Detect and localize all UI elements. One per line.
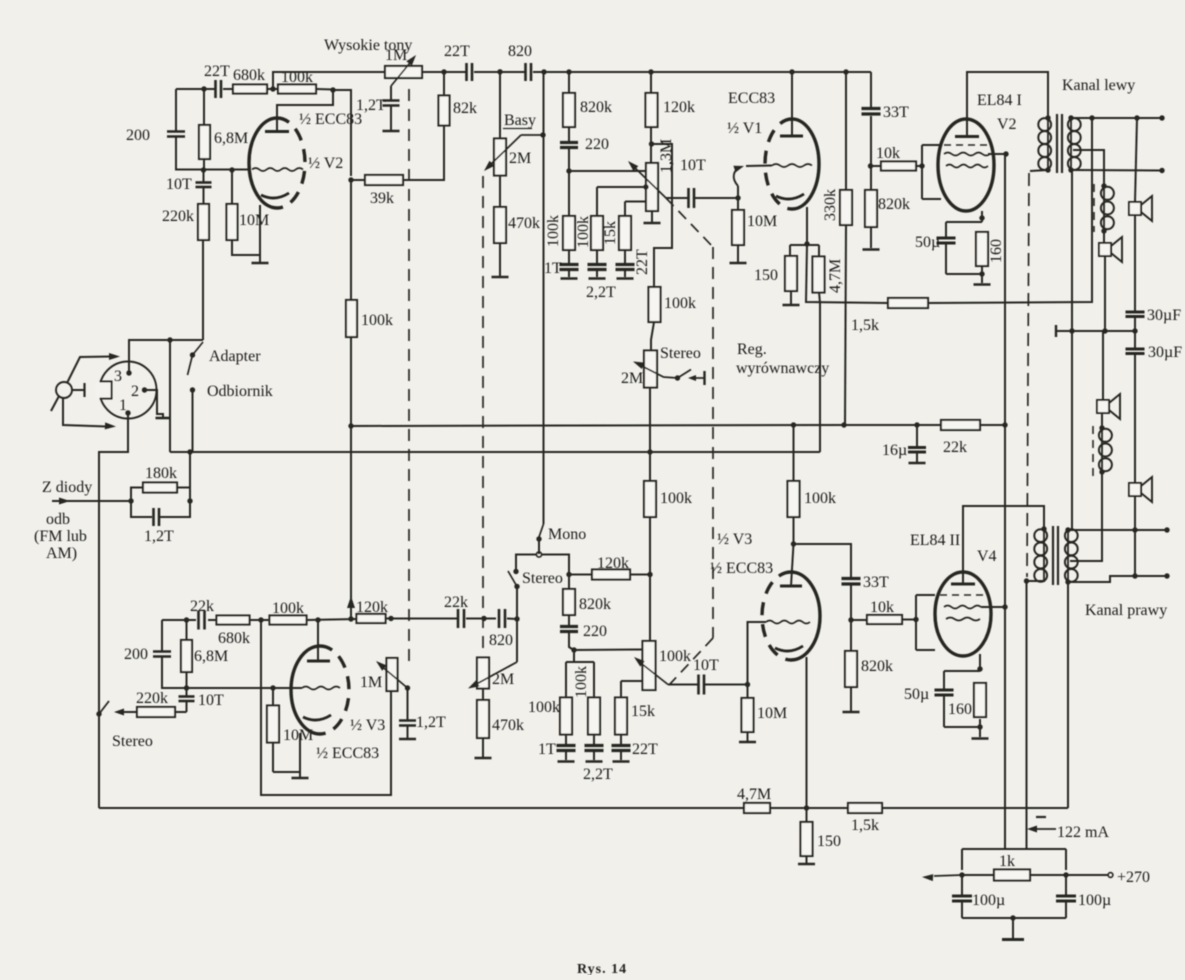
svg-text:Kanal lewy: Kanal lewy	[1062, 77, 1135, 94]
wire EL84II cathode	[979, 654, 981, 671]
node bus dots	[541, 69, 546, 74]
wire 1,2T tail	[390, 106, 392, 130]
node bottom bus junction	[804, 805, 809, 810]
wire anode junction to tube	[791, 544, 794, 586]
resistor 10M (top)	[231, 170, 233, 204]
svg-text:100k: 100k	[361, 312, 393, 329]
svg-text:4,7M: 4,7M	[737, 786, 771, 803]
svg-text:10T: 10T	[198, 692, 224, 709]
svg-text:½ ECC83: ½ ECC83	[316, 745, 379, 762]
svg-text:1,2T: 1,2T	[416, 714, 446, 731]
svg-text:820k: 820k	[579, 596, 611, 613]
node B junction	[270, 86, 275, 91]
tube V2 half ECC83 (top)	[249, 118, 277, 208]
svg-text:100k: 100k	[660, 490, 692, 507]
resistor 820k (bottom output)	[845, 651, 857, 687]
terminal EL84I cathode	[974, 283, 991, 286]
svg-text:ECC83: ECC83	[728, 90, 775, 107]
terminal 820k b	[843, 711, 860, 714]
terminal 470k b	[475, 757, 492, 760]
resistor 100k (btone #2)	[588, 698, 600, 735]
node V3 grid node	[745, 682, 750, 687]
capacitor 22T (bus)	[465, 63, 468, 81]
svg-text:wyrównawczy: wyrównawczy	[736, 360, 829, 377]
svg-text:2,2T: 2,2T	[586, 284, 616, 301]
node grid junction	[201, 167, 206, 172]
wire 220 to junction	[568, 148, 570, 216]
potentiometer 1M (Wysokie tony)	[385, 66, 422, 78]
capacitor 22T (tone)	[624, 250, 626, 264]
grid wavy EL84I a	[944, 153, 990, 156]
node 10k junction (bottom)	[848, 617, 853, 622]
wire riser to tone bus	[273, 72, 385, 89]
capacitor 30uF #1	[1126, 311, 1145, 314]
node anode junction	[330, 87, 335, 92]
svg-text:1,5k: 1,5k	[851, 317, 879, 334]
cathode arc V1	[776, 194, 804, 199]
wire 33T column	[870, 72, 872, 108]
wire socket pin3 riser	[129, 340, 203, 373]
ground (filter)	[1012, 918, 1014, 938]
anode bar V3 mid	[780, 585, 802, 588]
node 120k bottom junction	[649, 141, 654, 146]
node screen junction	[1003, 151, 1008, 156]
dashed B+ drop	[1027, 173, 1029, 577]
switch Adapter lever	[188, 355, 193, 375]
svg-text:2M: 2M	[509, 150, 531, 167]
resistor 10k (bottom)	[851, 619, 866, 621]
svg-text:4,7M: 4,7M	[827, 259, 844, 293]
terminal 150	[783, 304, 800, 307]
wire tone bus segment	[422, 71, 466, 73]
svg-text:2: 2	[131, 383, 139, 400]
wire pin1 drop	[99, 413, 128, 808]
capacitor 1,2T (below 1M)	[383, 99, 400, 102]
node EL84I cathode junction	[979, 215, 984, 220]
terminal 22T	[617, 277, 634, 280]
svg-text:odb: odb	[46, 511, 70, 528]
resistor 180k	[131, 488, 143, 502]
wire z-diody arrow	[52, 500, 131, 502]
terminal 10M	[730, 262, 747, 265]
svg-text:2M: 2M	[621, 370, 643, 387]
svg-text:+270: +270	[1117, 869, 1150, 886]
svg-text:Stereo: Stereo	[660, 345, 701, 362]
svg-text:Kanal prawy: Kanal prawy	[1085, 602, 1167, 619]
svg-text:V2: V2	[997, 116, 1017, 133]
resistor 82k	[443, 72, 445, 96]
wire 100k column to bottom row	[350, 426, 352, 619]
grid wavy EL84II a	[944, 606, 981, 609]
svg-text:1,5k: 1,5k	[851, 817, 879, 834]
capacitor 200 (bottom)	[153, 650, 171, 653]
wire T2 sec tap	[1070, 473, 1102, 561]
node cathode bottom junction b	[977, 724, 982, 729]
grid wavy EL84I b	[946, 165, 988, 168]
wire bus2 (y452)	[170, 451, 820, 453]
node V1 grid node	[735, 195, 740, 200]
resistor 4,7M (bottom)	[744, 803, 770, 813]
node 120k junction	[647, 572, 652, 577]
switch Stereo (mid)	[513, 569, 518, 574]
wire T2 sec bottom row	[1068, 576, 1167, 582]
svg-text:160: 160	[988, 239, 1005, 263]
wire B+ drop to box	[1026, 581, 1028, 849]
capacitor 1T (tone)	[568, 250, 570, 264]
node cathode junction	[804, 241, 809, 246]
switch Adapter contact	[190, 352, 195, 357]
node bus1 dots	[791, 422, 796, 427]
node 820k top junction	[566, 572, 571, 577]
potentiometer 2M (Basy bottom)	[477, 658, 489, 689]
socket pin 1	[125, 410, 130, 415]
svg-text:39k: 39k	[370, 190, 394, 207]
resistor 100k (top input)	[278, 85, 316, 94]
resistor 22k (bus1)	[941, 420, 980, 430]
wire V1 cathode	[806, 207, 808, 244]
svg-text:10k: 10k	[870, 599, 894, 616]
resistor 100k (below pot)	[649, 287, 661, 322]
svg-text:220: 220	[583, 623, 607, 640]
resistor 100k (feedback column)	[346, 300, 357, 337]
resistor 330k	[840, 190, 852, 225]
node bottom tone junction	[571, 647, 576, 652]
wire stereo junction to Basy wiper	[516, 619, 518, 662]
resistor 10M (V1 grid)	[737, 198, 739, 210]
capacitor 50u (EL84II)	[935, 689, 954, 692]
resistor 100k (mid below bus)	[644, 481, 656, 517]
svg-text:180k: 180k	[145, 465, 177, 482]
resistor 220k (top)	[203, 187, 205, 204]
svg-text:10T: 10T	[680, 157, 706, 174]
wire Basy feed	[499, 72, 501, 139]
wire left branch 200 b	[161, 620, 163, 651]
svg-text:1,3M: 1,3M	[658, 139, 675, 173]
resistor 470k (Basy top)	[499, 175, 501, 207]
node pin3 wire junction	[167, 337, 172, 342]
wire T1 sec bottom row	[1071, 169, 1162, 172]
terminal 22T b	[613, 760, 630, 763]
resistor 160 (EL84I)	[976, 232, 988, 266]
tube V3 half ECC83 (bottom)	[291, 646, 320, 734]
capacitor 10T (top)	[203, 170, 205, 182]
svg-text:100k: 100k	[545, 215, 562, 247]
svg-text:Basy: Basy	[504, 112, 536, 129]
svg-text:470k: 470k	[492, 717, 524, 734]
svg-text:Stereo: Stereo	[112, 733, 153, 750]
svg-text:100k: 100k	[659, 648, 691, 665]
svg-text:680k: 680k	[233, 67, 265, 84]
svg-text:10M: 10M	[239, 212, 269, 229]
pot 100k wiper	[637, 660, 668, 685]
speaker left-top line	[1135, 118, 1137, 202]
tube V3 half ECC83 (mid)	[791, 572, 820, 660]
box feedback loop	[261, 620, 391, 795]
svg-text:120k: 120k	[356, 599, 388, 616]
svg-text:Mono: Mono	[548, 526, 586, 543]
wire T2 sec bottom to bus	[1067, 582, 1069, 808]
resistor 10k (top)	[871, 165, 880, 167]
svg-text:Reg.: Reg.	[737, 341, 767, 358]
capacitor 33T	[862, 107, 881, 110]
socket DIN circle	[100, 362, 157, 419]
pot 2M-b wiper	[471, 662, 517, 687]
arrow supply left	[934, 875, 962, 876]
svg-text:Adapter: Adapter	[209, 348, 261, 365]
dashed gang line (Wysokie tony)	[408, 89, 410, 667]
wire junction to 100k pot	[574, 649, 642, 652]
wire 30uF link	[1134, 317, 1136, 349]
anode bar V2	[265, 130, 289, 133]
wire cathode V2 to ground	[259, 205, 261, 262]
svg-text:10k: 10k	[876, 145, 900, 162]
wire plug bottom arrow	[63, 397, 107, 427]
terminal bar 1,2T	[383, 130, 400, 133]
capacitor 16u	[916, 425, 918, 447]
potentiometer 2M (Stereo reg)	[644, 351, 657, 388]
wire cathode bracket EL84II	[944, 670, 980, 672]
capacitor 1T (bottom)	[565, 734, 567, 745]
wire bottom bus	[99, 807, 744, 809]
node 10M-b junction	[270, 685, 275, 690]
terminal pin2 chassis	[156, 417, 171, 420]
svg-text:160: 160	[948, 701, 972, 718]
potentiometer 100k (Reg bottom)	[643, 641, 656, 690]
wire screen to B+ (bottom)	[981, 606, 1005, 608]
svg-text:½ V3: ½ V3	[717, 531, 752, 548]
svg-text:22T: 22T	[634, 249, 651, 275]
capacitor 2,2T (bottom)	[593, 734, 595, 745]
wire y331 row	[1056, 330, 1135, 332]
svg-text:820: 820	[489, 632, 513, 649]
capacitor 22k (coupling b)	[457, 609, 460, 628]
resistor 39k	[365, 175, 403, 185]
node drop junction	[1069, 328, 1074, 333]
svg-text:EL84 I: EL84 I	[977, 92, 1022, 109]
capacitor 30uF #2	[1126, 348, 1145, 351]
svg-text:820: 820	[508, 43, 532, 60]
capacitor 220 (tone top)	[568, 127, 570, 142]
resistor 15k (tone)	[625, 201, 646, 203]
svg-text:22k: 22k	[444, 594, 468, 611]
wire 200b to grid row	[162, 657, 302, 688]
svg-text:Odbiornik: Odbiornik	[207, 383, 273, 400]
pot 2M stereo wiper	[637, 364, 678, 379]
dashed gang diag (to Reg bottom)	[666, 198, 713, 247]
anode bar EL84II	[951, 583, 975, 586]
wire anode to 39k column	[333, 90, 351, 176]
resistor 820k (bottom tone)	[568, 575, 570, 590]
anode bar V3 bottom	[307, 660, 330, 663]
wire screen to B+ line	[988, 153, 1006, 155]
cathode arc V3 bottom	[303, 715, 331, 720]
wire 4,7M down to bus2	[819, 292, 820, 303]
wire 1.5k to transformer line	[928, 118, 1092, 303]
node 39k junction	[348, 177, 353, 182]
svg-text:15k: 15k	[602, 221, 619, 245]
svg-text:15k: 15k	[631, 703, 655, 720]
label minus	[1036, 816, 1046, 818]
svg-text:820k: 820k	[580, 99, 612, 116]
resistor 150 (bottom)	[806, 808, 808, 822]
node tone junction	[566, 168, 571, 173]
svg-text:100µ: 100µ	[972, 892, 1005, 909]
wire 39k row	[351, 179, 365, 181]
choke (right channel)	[1092, 426, 1094, 476]
screen dashes EL84II	[940, 594, 984, 596]
grid box EL84II	[915, 595, 917, 650]
wire T1 sec tap	[1073, 150, 1104, 186]
speaker right-mid	[1101, 414, 1103, 428]
node coupling junction	[481, 616, 486, 621]
node 33T junction	[868, 163, 873, 168]
wire 1M wiper node	[390, 86, 392, 100]
capacitor 1,2T (bottom)	[399, 719, 416, 722]
svg-text:330k: 330k	[822, 189, 839, 221]
wire V3 grid riser	[748, 622, 767, 685]
wire 33T to 820k	[850, 584, 852, 651]
wire V2 anode riser	[277, 90, 333, 131]
svg-text:122 mA: 122 mA	[1057, 824, 1109, 841]
svg-text:50µ: 50µ	[904, 686, 929, 703]
tube EL84 II	[935, 572, 991, 656]
socket pin 2	[142, 387, 147, 392]
svg-text:2,2T: 2,2T	[583, 766, 613, 783]
wire V3b anode riser	[317, 620, 319, 661]
terminal 820k	[863, 248, 880, 251]
svg-text:1,2T: 1,2T	[144, 528, 174, 545]
svg-text:100k: 100k	[528, 699, 560, 716]
pot 1M-b wiper	[379, 664, 408, 688]
svg-text:680k: 680k	[218, 630, 250, 647]
svg-text:½ ECC83: ½ ECC83	[710, 560, 773, 577]
wire V3 mid cathode	[806, 657, 808, 808]
terminal 470k	[492, 276, 509, 279]
wire T2 sec top row	[1068, 529, 1167, 531]
resistor 120k (bottom input)	[357, 614, 386, 623]
capacitor 820 (bus)	[524, 63, 527, 81]
svg-text:10T: 10T	[693, 657, 719, 674]
wire stereo contact down	[516, 587, 518, 619]
anode bar V1	[780, 135, 803, 138]
resistor 1,5k (bottom)	[848, 803, 882, 813]
wire Odbiornik drop	[192, 390, 194, 452]
resistor 4,7M (feedback top)	[813, 257, 825, 293]
transformer T2 core	[1052, 526, 1054, 585]
transformer T1 primary	[1047, 118, 1049, 170]
wire junction to 1.3M pot	[569, 170, 646, 172]
capacitor 10T (coupling bottom)	[697, 675, 700, 695]
svg-text:10M: 10M	[747, 213, 777, 230]
speaker right-top	[1129, 483, 1141, 496]
svg-text:½ V1: ½ V1	[727, 120, 762, 137]
resistor 220k (bottom)	[175, 711, 187, 713]
wire 2M stereo column	[649, 387, 651, 481]
resistor 820k (tone top)	[568, 72, 570, 93]
capacitor 22k (bottom input)	[197, 611, 200, 630]
svg-text:½ ECC83: ½ ECC83	[299, 111, 362, 128]
wire 1k row	[962, 874, 994, 876]
terminal +270	[1108, 873, 1113, 878]
wire 1,2T b tail	[407, 726, 409, 738]
wire B+ rail (screen line)	[1004, 154, 1006, 849]
wire EL84I cathode	[981, 211, 983, 222]
terminal 10M mid	[739, 741, 756, 744]
svg-text:22k: 22k	[190, 598, 214, 615]
svg-text:100k: 100k	[664, 295, 696, 312]
resistor 150 (V1 cathode)	[785, 256, 797, 291]
node 82k top junction	[441, 69, 446, 74]
wire wiper to 10T	[668, 684, 698, 686]
capacitor 2,2T (tone)	[596, 250, 598, 264]
svg-text:6,8M: 6,8M	[194, 648, 228, 665]
svg-text:50µ: 50µ	[915, 234, 940, 251]
svg-text:30µF: 30µF	[1148, 344, 1182, 361]
wire plug top arrow	[67, 357, 112, 384]
resistor 1,5k (top)	[888, 298, 928, 308]
svg-text:22T: 22T	[632, 741, 658, 758]
wire wiper to 10T cap	[666, 197, 688, 199]
arrow up on column	[347, 596, 355, 608]
wire 1,3M ground	[651, 211, 653, 222]
node T2 primary bottom	[1024, 578, 1029, 583]
grid wavy EL84II b	[946, 618, 980, 621]
svg-text:22T: 22T	[204, 63, 230, 80]
wire 10M-b ground link	[273, 771, 300, 773]
capacitor 10T (coupling top)	[687, 188, 690, 208]
ground (V3 bottom cathode)	[292, 777, 309, 780]
switch Odbiornik contact	[190, 387, 195, 392]
svg-text:3: 3	[114, 368, 122, 385]
node bus1 junction	[348, 423, 353, 428]
capacitor 100u (left)	[961, 875, 963, 895]
node 180k right	[187, 498, 192, 503]
switch Mono	[539, 524, 544, 537]
wire 220 to junction	[569, 631, 574, 650]
transformer T1 secondary	[1070, 118, 1072, 170]
svg-text:1,2T: 1,2T	[356, 97, 386, 114]
wire 100k to 2M pot	[651, 322, 654, 351]
wire 10T to V1 grid node	[694, 197, 738, 199]
svg-text:100k: 100k	[575, 216, 592, 248]
resistor 100k (btone #1)	[560, 698, 572, 735]
capacitor 22T (bottom)	[620, 734, 622, 745]
wire mono left branch	[516, 555, 537, 570]
cathode arc V2	[261, 193, 289, 198]
svg-text:120k: 120k	[663, 99, 695, 116]
svg-text:1M: 1M	[385, 47, 407, 64]
wire EL84II anode riser	[963, 506, 1044, 584]
resistor 160 (EL84II)	[974, 683, 986, 717]
svg-text:150: 150	[817, 833, 841, 850]
terminal 150 b	[798, 863, 815, 866]
wire 10M to ground	[232, 240, 260, 255]
wire grid hook V1	[737, 186, 739, 198]
wire drop to bus2	[169, 340, 171, 452]
resistor 10M (bottom)	[272, 688, 274, 706]
capacitor 820 (coupling b)	[498, 609, 501, 628]
arrow 122mA	[1033, 828, 1056, 830]
switch stereo-reg	[678, 370, 692, 379]
terminal 1T	[561, 277, 578, 280]
wire cathode bracket	[790, 244, 819, 246]
resistor 120k (mid)	[569, 574, 592, 576]
svg-text:820k: 820k	[878, 196, 910, 213]
choke (left channel)	[1093, 184, 1095, 232]
transformer T2 primary	[1043, 529, 1045, 582]
svg-text:10T: 10T	[166, 176, 192, 193]
ground (V2 cathode)	[252, 262, 269, 265]
